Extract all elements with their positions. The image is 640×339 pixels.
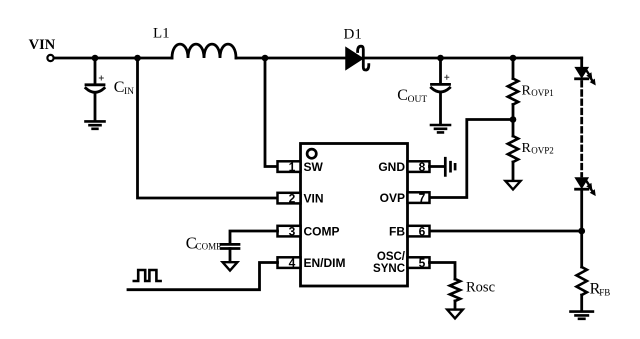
pin 5 box bbox=[408, 257, 430, 268]
svg-text:C: C bbox=[397, 87, 408, 104]
resistor RFB bbox=[577, 267, 587, 295]
input terminal bbox=[47, 55, 53, 61]
ground arrow at ROVP2 bbox=[505, 181, 520, 190]
svg-text:8: 8 bbox=[419, 160, 426, 174]
ground at RFB bbox=[571, 312, 593, 319]
svg-text:SW: SW bbox=[304, 160, 324, 174]
svg-text:1: 1 bbox=[289, 160, 296, 174]
svg-text:5: 5 bbox=[419, 256, 426, 270]
dashed LED string bbox=[580, 82, 583, 177]
pin 3 box bbox=[278, 226, 301, 237]
resistor ROVP1 bbox=[512, 58, 515, 79]
PWM waveform symbol bbox=[134, 270, 161, 281]
wire: VIN branch down to pin 2 bbox=[138, 58, 278, 198]
pin 1 box bbox=[278, 161, 301, 172]
wire: OVP node to pin 7 bbox=[430, 120, 514, 198]
wire: diode to LED corner bbox=[363, 57, 582, 60]
capacitor CCOMP bbox=[221, 243, 239, 246]
svg-text:7: 7 bbox=[419, 191, 426, 205]
pin 6 box bbox=[408, 226, 430, 237]
junction at SW branch bbox=[262, 55, 269, 62]
pin 4 box bbox=[278, 257, 301, 268]
capacitor CIN bbox=[94, 58, 97, 84]
junction FB node bbox=[578, 228, 585, 235]
LED D2 anode wire bbox=[580, 58, 583, 68]
junction at ROVP1 bbox=[510, 55, 517, 62]
junction at VIN-pin branch bbox=[134, 55, 141, 62]
svg-text:IN: IN bbox=[124, 87, 134, 97]
svg-text:2: 2 bbox=[289, 192, 296, 206]
inductor L1 bbox=[172, 44, 236, 58]
svg-text:SYNC: SYNC bbox=[373, 263, 405, 275]
diode D1 (schottky) bbox=[346, 48, 363, 69]
pin 7 box bbox=[408, 192, 430, 203]
svg-text:OSC/: OSC/ bbox=[377, 251, 406, 263]
svg-text:FB: FB bbox=[389, 225, 405, 239]
svg-text:Rosc: Rosc bbox=[466, 280, 495, 296]
svg-text:D1: D1 bbox=[344, 27, 362, 43]
svg-text:VIN: VIN bbox=[29, 37, 56, 53]
pin-1 indicator circle bbox=[307, 149, 316, 158]
ground at CIN bbox=[86, 121, 105, 128]
wire: SW branch down to pin 1 bbox=[265, 58, 278, 167]
ground at COUT bbox=[431, 125, 450, 132]
wire: pin 4 EN/DIM input bbox=[128, 263, 278, 290]
LED D2 bbox=[576, 68, 588, 78]
wire: GND pin 8 to ground bbox=[430, 165, 445, 168]
svg-text:4: 4 bbox=[289, 256, 296, 270]
svg-text:FB: FB bbox=[599, 287, 610, 297]
IC U1 body bbox=[301, 144, 408, 287]
svg-text:OVP1: OVP1 bbox=[531, 88, 554, 98]
wire: pin 5 to Rosc bbox=[430, 263, 456, 280]
svg-text:EN/DIM: EN/DIM bbox=[304, 256, 346, 270]
svg-text:C: C bbox=[114, 79, 125, 96]
svg-text:GND: GND bbox=[378, 160, 405, 174]
svg-text:OVP2: OVP2 bbox=[531, 146, 554, 156]
wire: pin 3 to CCOMP bbox=[230, 231, 278, 243]
junction OVP node bbox=[510, 116, 517, 123]
wire: LED D3 cathode down to RFB bbox=[580, 191, 583, 267]
ground arrow at Rosc bbox=[447, 310, 463, 319]
svg-text:OUT: OUT bbox=[408, 95, 428, 105]
svg-text:L1: L1 bbox=[153, 26, 170, 42]
wire: inductor to diode bbox=[236, 57, 346, 60]
ground arrow at CCOMP bbox=[223, 262, 238, 270]
resistor ROVP2 bbox=[512, 120, 515, 137]
wire: FB pin 6 to FB node bbox=[430, 230, 582, 233]
pin 2 box bbox=[278, 193, 301, 204]
junction at CIN bbox=[92, 55, 99, 62]
resistor Rosc bbox=[450, 279, 460, 301]
svg-text:6: 6 bbox=[419, 225, 426, 239]
capacitor COUT bbox=[439, 58, 442, 84]
LED D3 bbox=[576, 178, 588, 188]
svg-text:OVP: OVP bbox=[380, 191, 405, 205]
wire: VIN rail to inductor bbox=[54, 57, 172, 60]
svg-text:VIN: VIN bbox=[304, 192, 324, 206]
svg-text:3: 3 bbox=[289, 225, 296, 239]
pin 8 box bbox=[408, 161, 430, 172]
svg-text:COMP: COMP bbox=[196, 242, 222, 252]
svg-text:R: R bbox=[522, 141, 532, 156]
junction at COUT bbox=[437, 55, 444, 62]
ground (rotated) at pin 8 bbox=[445, 158, 455, 175]
svg-text:COMP: COMP bbox=[304, 225, 340, 239]
svg-text:R: R bbox=[522, 84, 532, 99]
